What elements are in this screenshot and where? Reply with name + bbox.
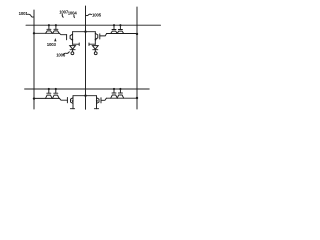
junction dot (bottom-left cell wire to bit line 1001): [33, 97, 35, 99]
gate bar Q1b: [54, 28, 58, 30]
junction dot (gate Q1b on word line): [55, 24, 57, 26]
wire (top-left cell wire): [34, 32, 59, 34]
gate tick Q1b: [55, 25, 57, 29]
terminal circle (top-right cell): [94, 52, 97, 55]
wire (step down to gate of Q6): [60, 98, 68, 100]
junction dot (bottom cells to middle bit line): [84, 95, 86, 97]
gate bar Q3a: [112, 29, 116, 31]
transistor hump Q1b: [53, 31, 60, 33]
transistor hump Q3a: [111, 31, 118, 33]
gate tick Q5b: [55, 89, 57, 93]
svg-text:1003: 1003: [47, 42, 57, 47]
transistor hump Q7a: [111, 95, 118, 98]
wire (Q2 drain to middle bit line): [73, 31, 86, 33]
wire (bottom-right cell wire): [106, 97, 137, 99]
bit line (right vertical): [136, 7, 138, 109]
junction dot (gate Q3b on word line): [119, 24, 121, 26]
junction dot (gate Q5b on word line): [55, 88, 57, 90]
transistor hump Q5b: [53, 95, 60, 98]
gate tick Q3a: [113, 25, 115, 29]
svg-text:1004: 1004: [68, 10, 78, 15]
transistor hump Q4: [95, 33, 98, 39]
arrow on Q4 channel: [95, 39, 97, 41]
junction dot (gate Q7b on word line): [119, 88, 121, 90]
wire (middle bit line to Q8 drain): [86, 95, 97, 97]
diode 1006: [70, 46, 76, 52]
transistor hump Q7b: [117, 95, 124, 98]
gate tick Q7b: [119, 89, 121, 93]
wire (gate of Q4 to step up): [100, 34, 107, 36]
transistor hump Q6: [71, 98, 74, 104]
junction dot (gate Q3a on word line): [113, 24, 115, 26]
leader 1001: [28, 14, 33, 17]
transistor Q4 channel: [94, 32, 96, 45]
word line (bottom horizontal): [25, 88, 150, 90]
junction dot (gate Q1a on word line): [48, 24, 50, 26]
junction dot (top-right cell wire to right bit line): [136, 33, 138, 35]
junction dot (top-left cell wire to bit line 1001): [33, 32, 35, 34]
transistor hump Q5a: [46, 95, 53, 98]
wire (Q6 drain to middle bit line): [73, 95, 86, 97]
gate bar Q1a: [47, 28, 51, 30]
gate tick Q3b: [119, 25, 121, 29]
gate tick Q1a: [48, 25, 50, 29]
word line (top horizontal): [26, 24, 161, 26]
wire (gate of Q8 to step up): [101, 98, 106, 100]
arrow on Q2 channel: [71, 39, 73, 41]
gate bar Q7b: [118, 92, 122, 94]
wire (bottom-left cell wire): [34, 97, 60, 99]
gate bar Q3b: [118, 29, 122, 31]
wire (step down to gate of Q2): [59, 33, 66, 34]
gate bar Q2 (vertical transistor, top-left cell): [66, 35, 68, 40]
gate tick Q5a: [48, 89, 50, 93]
arrow on Q8 channel: [96, 100, 98, 102]
transistor hump Q1a: [46, 31, 53, 33]
gate bar Q5a: [47, 92, 51, 94]
transistor hump Q3b: [117, 31, 124, 33]
leader 1006: [63, 52, 69, 55]
transistor Q2 channel: [72, 32, 74, 45]
transistor Q8 channel: [96, 96, 98, 109]
gate tick Q7a: [113, 89, 115, 93]
bit line 1001 (left vertical): [33, 10, 35, 109]
bit line 1005 (middle vertical): [85, 6, 87, 109]
terminal circle 1006: [71, 52, 74, 55]
junction dot (gate Q7a on word line): [113, 88, 115, 90]
body tick Q2: [73, 43, 80, 46]
body tick Q6: [70, 108, 74, 110]
wire (top-right cell wire): [107, 33, 137, 35]
gate bar Q6 (vertical transistor, bottom-left cell): [66, 98, 68, 103]
transistor Q6 channel: [72, 96, 74, 109]
junction dot (top cells to middle bit line): [84, 31, 86, 33]
gate bar Q7a: [112, 92, 116, 94]
svg-text:1005: 1005: [92, 12, 102, 17]
gate bar Q5b: [54, 92, 58, 94]
svg-text:1001: 1001: [19, 11, 29, 16]
junction dot (bottom-right cell wire to right bit line): [136, 97, 138, 99]
body tick Q8: [94, 108, 98, 110]
diode (top-right cell): [92, 46, 98, 52]
transistor hump Q2: [70, 34, 73, 40]
leader 1004: [73, 15, 76, 18]
gate bar Q4 (vertical transistor, top-right cell): [99, 34, 101, 39]
arrow on Q6 channel: [72, 100, 74, 102]
wire (middle bit line to Q4 drain): [86, 31, 96, 33]
leader 1005: [86, 14, 92, 15]
transistor hump Q8: [97, 98, 100, 104]
gate bar Q8 (vertical transistor, bottom-right cell): [100, 98, 102, 103]
junction dot (gate Q5a on word line): [48, 88, 50, 90]
leader 1003: [55, 39, 56, 41]
svg-text:1006: 1006: [56, 53, 66, 58]
leader 1007: [62, 14, 63, 17]
body tick Q4: [89, 43, 95, 46]
